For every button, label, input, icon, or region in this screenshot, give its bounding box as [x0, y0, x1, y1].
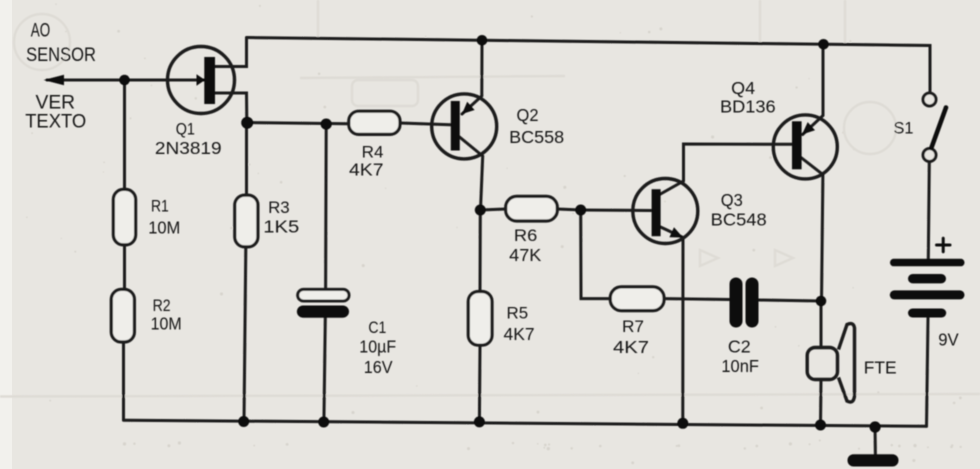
label VER TEXTO — [25, 92, 86, 132]
label AO SENSOR — [26, 20, 96, 66]
switch S1 — [923, 93, 946, 162]
label C2 10nF — [721, 336, 759, 376]
wire R7 to C2 — [664, 297, 730, 301]
svg-text:Q1: Q1 — [176, 119, 195, 138]
node rail speaker — [815, 420, 826, 431]
node rail R3 — [238, 416, 249, 427]
svg-text:4K7: 4K7 — [504, 324, 535, 344]
wire top rail — [247, 38, 931, 94]
node rail Q3 emitter — [677, 418, 688, 429]
label R2 10M — [151, 296, 182, 334]
wire Q3 collector to Q4 base — [661, 144, 793, 194]
wire node A to R4 — [247, 123, 349, 124]
svg-text:4K7: 4K7 — [613, 337, 649, 357]
svg-text:10M: 10M — [148, 217, 180, 237]
resistor R6 — [506, 196, 558, 221]
wire node C down to R7 — [581, 210, 611, 299]
node rail ground — [870, 421, 881, 432]
wire R3 to bottom rail — [244, 247, 246, 422]
node B collector Q2 — [475, 205, 486, 216]
resistor R3 — [235, 195, 258, 247]
battery B1 9V — [890, 259, 965, 318]
wire left vertical R1/R2 branch — [123, 80, 126, 189]
wire S1 to battery — [928, 162, 929, 260]
resistor R5 — [468, 292, 492, 346]
wire Q1 drain to top rail — [215, 38, 247, 67]
svg-text:Q4: Q4 — [731, 78, 755, 98]
wire ground stub — [874, 427, 877, 456]
wire R1 to R2 — [123, 245, 126, 290]
label R1 10M — [148, 196, 180, 237]
svg-text:R3: R3 — [268, 198, 290, 217]
label R3 1K5 — [263, 198, 299, 237]
wire Q1 source down to node — [215, 93, 247, 123]
wire node C to Q3 base — [581, 209, 652, 213]
wire C2 to node D — [759, 300, 822, 301]
node rail R5 — [474, 416, 485, 427]
label battery plus — [937, 238, 951, 251]
svg-text:FTE: FTE — [864, 358, 897, 378]
svg-text:S1: S1 — [894, 118, 914, 137]
resistor R7 — [610, 287, 664, 311]
wire node B to R6 — [480, 209, 505, 210]
wire Q3 emitter to bottom rail — [661, 227, 684, 423]
wire Q4 collector down to node D — [802, 158, 823, 301]
wire C1 top branch — [324, 124, 328, 289]
svg-text:R6: R6 — [514, 226, 537, 245]
wire R6 to node C — [557, 209, 580, 210]
label R4 4K7 — [349, 143, 384, 180]
svg-text:1K5: 1K5 — [263, 216, 299, 236]
svg-text:16V: 16V — [364, 357, 393, 377]
svg-text:2N3819: 2N3819 — [155, 138, 222, 158]
transistor Q1 — [168, 47, 235, 114]
svg-text:TEXTO: TEXTO — [25, 112, 86, 133]
node A source junction — [241, 117, 253, 129]
resistor R4 — [349, 111, 400, 134]
node D collector Q4 — [816, 296, 827, 307]
svg-text:BD136: BD136 — [720, 97, 776, 117]
label Q3 BC548 — [711, 190, 767, 229]
wire bottom rail — [125, 420, 926, 426]
capacitor C1 — [297, 289, 349, 317]
wire speaker to bottom rail — [819, 380, 823, 426]
transistor Q4 — [773, 115, 837, 179]
label R6 47K — [509, 226, 541, 265]
label Q2 BC558 — [509, 105, 564, 147]
svg-text:C1: C1 — [368, 318, 386, 337]
wire node D to speaker — [820, 301, 823, 348]
label R7 4K7 — [613, 317, 649, 357]
svg-text:47K: 47K — [509, 245, 541, 265]
svg-text:R5: R5 — [507, 304, 529, 323]
svg-text:VER: VER — [36, 92, 76, 113]
wire sensor arrow to Q1 gate — [47, 79, 204, 82]
svg-text:10nF: 10nF — [721, 356, 759, 376]
wire Q2 collector down — [460, 137, 483, 210]
svg-text:R7: R7 — [622, 317, 644, 336]
node gate junction — [119, 75, 130, 86]
sensor arrow — [44, 75, 65, 85]
svg-text:C2: C2 — [728, 336, 751, 356]
svg-text:Q2: Q2 — [517, 105, 539, 125]
speaker FTE — [807, 324, 854, 402]
svg-text:4K7: 4K7 — [349, 160, 384, 180]
svg-text:9V: 9V — [938, 330, 959, 350]
wire C1 to bottom rail — [324, 318, 325, 422]
ground — [848, 454, 899, 466]
svg-text:R1: R1 — [151, 196, 169, 215]
label Q1 — [155, 119, 222, 158]
resistor R1 — [113, 189, 135, 245]
resistor R2 — [111, 289, 134, 342]
svg-text:10M: 10M — [151, 313, 182, 333]
svg-text:AO: AO — [31, 20, 50, 41]
wire battery to bottom rail — [927, 317, 929, 426]
svg-text:SENSOR: SENSOR — [26, 45, 96, 66]
svg-text:BC548: BC548 — [711, 209, 767, 229]
node top rail Q4 — [818, 39, 829, 50]
wire node A down to R3 — [245, 122, 248, 195]
wire node B to R5 — [479, 210, 482, 292]
label Q4 BD136 — [720, 78, 776, 117]
wire R4 to Q2 base — [400, 123, 451, 125]
capacitor C2 — [730, 278, 759, 328]
node rail C1 — [318, 417, 329, 428]
svg-text:R2: R2 — [153, 296, 171, 315]
svg-text:10µF: 10µF — [359, 337, 396, 357]
svg-text:BC558: BC558 — [509, 127, 564, 147]
node top rail Q2 — [477, 35, 488, 46]
node C base Q3 — [575, 205, 586, 216]
wire Q4 emitter to top rail — [803, 44, 823, 134]
transistor Q3 — [633, 179, 698, 244]
label R5 4K7 — [504, 304, 535, 345]
wire R5 to bottom rail — [478, 345, 482, 422]
wire R2 to bottom rail — [122, 342, 125, 420]
node C1 top junction — [321, 119, 332, 130]
wire Q2 emitter to top rail — [462, 40, 482, 114]
svg-text:Q3: Q3 — [721, 190, 743, 210]
transistor Q2 — [432, 94, 497, 159]
label C1 10uF 16V — [359, 318, 396, 377]
